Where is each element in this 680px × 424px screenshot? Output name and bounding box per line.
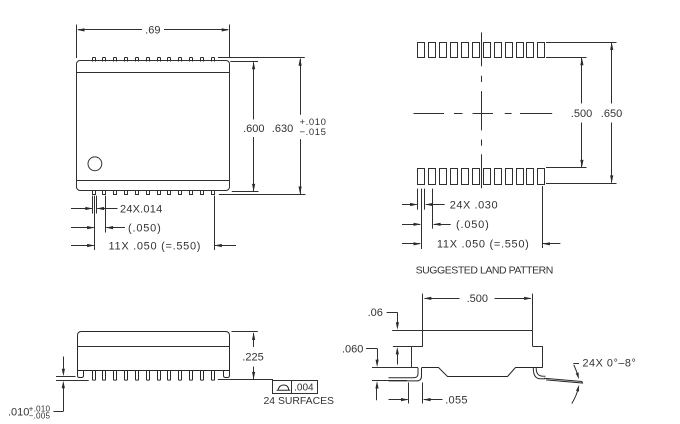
callout 11X .050 (=.550) land pattern — [402, 239, 560, 251]
angle callout 24X 0-8 deg — [572, 358, 637, 404]
profile standoff line left — [372, 367, 418, 369]
dimension .650 land pattern — [601, 42, 622, 183]
svg-text:.650: .650 — [601, 108, 622, 120]
seating plane line right — [218, 379, 273, 381]
profile seating ext line left — [372, 380, 407, 382]
dimension .500 land pattern — [571, 58, 592, 168]
side view pin row (12 pins) — [93, 371, 215, 381]
profile right lead foot angled 0-8 deg — [533, 368, 582, 383]
package body outline (top view) — [77, 61, 230, 191]
dimension .600 — [243, 62, 264, 192]
svg-text:.600: .600 — [243, 123, 264, 135]
land pattern top pad row (12 pads) — [418, 43, 545, 58]
flatness callout box — [273, 380, 318, 393]
extension lines right side of top view — [218, 58, 306, 195]
profile right upper edge — [532, 331, 534, 347]
body inner line bottom — [76, 180, 229, 182]
svg-text:11X .050 (=.550): 11X .050 (=.550) — [437, 239, 530, 251]
pin 1 marker circle — [88, 157, 102, 171]
pin width extension lines below top view — [93, 196, 215, 250]
land pattern right extension lines — [546, 43, 617, 184]
svg-text:.060: .060 — [342, 343, 363, 355]
svg-text:SUGGESTED LAND PATTERN: SUGGESTED LAND PATTERN — [416, 265, 553, 277]
dimension .060 — [342, 343, 379, 400]
callout (.050) top view — [71, 222, 162, 234]
svg-text:.004: .004 — [294, 383, 314, 394]
profile left body edge — [411, 346, 413, 368]
svg-text:.055: .055 — [445, 394, 468, 406]
svg-text:−.015: −.015 — [300, 127, 327, 138]
dimension .630 with tolerance — [272, 58, 327, 194]
side view inner line — [77, 346, 229, 348]
side view right corner foot — [224, 371, 230, 378]
side view body outline — [78, 332, 230, 371]
seating plane extension lines left — [56, 377, 89, 381]
dimension .06 — [368, 307, 399, 364]
vertical centerline — [481, 32, 483, 188]
svg-text:.500: .500 — [467, 293, 488, 305]
svg-text:24X.014: 24X.014 — [120, 203, 162, 215]
svg-text:11X .050 (=.550): 11X .050 (=.550) — [109, 240, 202, 252]
svg-text:.69: .69 — [145, 25, 160, 37]
callout 11X .050 (=.550) — [71, 240, 236, 252]
horizontal centerline — [414, 113, 553, 115]
svg-text:.630: .630 — [272, 123, 293, 135]
profile shoulder line left — [393, 346, 423, 348]
profile left upper edge — [422, 331, 424, 347]
svg-text:.06: .06 — [368, 307, 383, 319]
dimension .69 extension lines — [77, 25, 230, 59]
profile right body edge — [542, 346, 544, 368]
body inner line top — [76, 72, 229, 74]
svg-text:(.050): (.050) — [128, 222, 162, 234]
svg-text:(.050): (.050) — [456, 219, 490, 231]
dimension .225 — [232, 332, 264, 380]
svg-text:.010: .010 — [8, 406, 29, 418]
svg-text:24X 0°–8°: 24X 0°–8° — [583, 358, 637, 370]
profile shoulder line right — [532, 346, 542, 348]
callout (.050) land pattern — [402, 219, 490, 231]
dimension .055 — [389, 383, 468, 407]
svg-text:.225: .225 — [242, 351, 263, 363]
dimension .69 — [77, 25, 229, 37]
top pin row (12 pins) — [93, 58, 215, 62]
land pattern bottom pad row (12 pads) — [418, 169, 545, 185]
callout 24X .030 — [402, 199, 498, 211]
callout 24X.014 — [71, 203, 162, 215]
svg-text:−.005: −.005 — [29, 411, 51, 420]
profile bottom contour — [422, 368, 543, 377]
bottom pin row (12 pins) — [93, 191, 215, 195]
side view left corner foot — [78, 371, 84, 378]
dimension .500 profile — [423, 293, 533, 330]
profile body top line — [392, 330, 532, 332]
dimension .010 standoff — [8, 357, 65, 421]
pad extension lines below land pattern — [418, 186, 543, 249]
svg-text:24 SURFACES: 24 SURFACES — [264, 396, 335, 407]
profile left lead foot — [389, 368, 422, 381]
svg-text:24X .030: 24X .030 — [450, 199, 498, 211]
svg-text:.500: .500 — [571, 108, 592, 120]
